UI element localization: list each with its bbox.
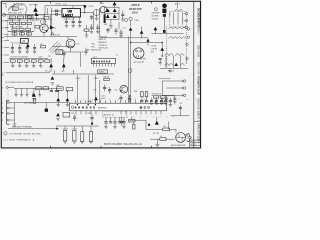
pin circle J1 — [185, 13, 188, 16]
svg-text:C8 C9 C10 C11: C8 C9 C10 C11 — [11, 43, 23, 45]
svg-text:o o o o o o o o o: o o o o o o o o o — [121, 116, 177, 118]
fan motor M1 — [176, 133, 186, 143]
double rail vertical — [128, 37, 130, 105]
diode CR20 dark — [51, 76, 55, 79]
svg-text:P4 SET: P4 SET — [140, 58, 146, 60]
caps row with grounds — [11, 44, 13, 48]
corner mark — [3, 3, 6, 7]
svg-text:REV A 86: REV A 86 — [197, 62, 201, 75]
pin circle J5 — [186, 57, 188, 59]
wires to fan — [146, 128, 163, 130]
wire — [36, 15, 38, 21]
wire stub — [47, 8, 49, 15]
resistor R20 — [10, 60, 15, 62]
hanging caps — [106, 117, 124, 122]
pin circle J3 — [185, 26, 188, 29]
capacitor C20 — [66, 17, 68, 21]
AC plug circle — [3, 13, 6, 16]
pin pad — [55, 10, 57, 12]
svg-text:NO FUSE: NO FUSE — [29, 5, 38, 7]
ground — [56, 104, 60, 106]
svg-text:C30 .1: C30 .1 — [59, 50, 64, 52]
inductor L4B box — [57, 87, 64, 90]
wire bridge out — [118, 22, 120, 29]
svg-text:MACINTOSH: MACINTOSH — [197, 124, 201, 144]
junction dots — [36, 12, 163, 105]
transistor Q11 — [66, 39, 75, 48]
resistor R6 — [21, 22, 25, 24]
svg-text:= EXTERNAL MOUNT ACORN+: = EXTERNAL MOUNT ACORN+ — [9, 133, 43, 136]
resistor row4 R12 — [12, 33, 17, 35]
svg-text:C18 C19: C18 C19 — [53, 35, 60, 37]
diode CR9 dark — [129, 27, 133, 30]
bridge rectifier CR8 — [113, 14, 117, 18]
ground — [121, 19, 125, 21]
svg-text:P/N 4: P/N 4 — [197, 28, 201, 35]
svg-text:C43 .1: C43 .1 — [101, 95, 106, 97]
ground — [85, 35, 89, 37]
svg-text:SHT 1: SHT 1 — [197, 114, 200, 122]
diode CR19 dark — [174, 63, 178, 66]
dashed feeder — [7, 16, 9, 40]
resistor R15 — [44, 17, 49, 20]
resistor R51 vertical — [133, 124, 135, 129]
svg-text:R45 R46 1K: R45 R46 1K — [152, 94, 162, 96]
diode CR1 dark — [50, 25, 54, 29]
svg-text:MAIN BATT TERMINAL: MAIN BATT TERMINAL — [12, 125, 32, 128]
capacitor C27 — [107, 28, 109, 30]
+5 arrow dark — [113, 2, 117, 6]
svg-text:[WHERE?]: [WHERE?] — [98, 107, 107, 109]
svg-text:MAUDE/LT: MAUDE/LT — [99, 41, 107, 44]
inductor bumps row — [165, 54, 174, 56]
extra cap col3 — [160, 106, 162, 108]
resistor box — [43, 87, 49, 90]
cap C17 — [91, 15, 93, 17]
svg-text:TO POWER SUPPLY MODULE: TO POWER SUPPLY MODULE — [5, 82, 34, 84]
ground — [155, 144, 159, 146]
right pins rows — [162, 80, 183, 82]
capacitor C23 — [91, 24, 93, 27]
wire drop to junction — [45, 103, 47, 109]
choke rung 2 — [168, 37, 186, 39]
trickle sub-circuit dashed box — [8, 21, 34, 31]
svg-text:POWER SUP: POWER SUP — [197, 76, 201, 95]
svg-text:APPLE FAN MTR: APPLE FAN MTR — [171, 144, 186, 147]
cap C44 — [109, 87, 111, 90]
svg-text:1 2 3 4 5 6 7 8 9 0 1 2 3 4 5: 1 2 3 4 5 6 7 8 9 0 1 2 3 4 5 6 7 8 — [75, 99, 202, 101]
svg-text:MMMTX04: MMMTX04 — [99, 36, 107, 38]
capacitor C21 — [72, 17, 74, 21]
capacitor C24 — [97, 24, 99, 27]
main wire — [3, 14, 45, 16]
diode CR10 dark — [140, 30, 144, 33]
cable bundle dark — [104, 14, 106, 23]
svg-text:+5.0V: +5.0V — [75, 78, 81, 80]
regulator U8 box — [62, 9, 80, 17]
svg-text:W MCY 2W: W MCY 2W — [30, 19, 40, 21]
svg-text:APPLE: APPLE — [131, 3, 140, 7]
svg-text:M03404A: M03404A — [93, 60, 112, 64]
ground — [13, 124, 17, 126]
choke dark blob — [162, 4, 167, 9]
long wire — [4, 35, 50, 37]
R17 — [41, 46, 46, 48]
grounds cluster — [155, 98, 157, 102]
part box — [63, 113, 70, 117]
resistor R13 — [20, 33, 25, 35]
svg-text:SML1.5 C.5L7: SML1.5 C.5L7 — [8, 20, 20, 22]
resistor box — [66, 88, 73, 91]
svg-text:R20 R21 R22 R23 R24: R20 R21 R22 R23 R24 — [11, 57, 28, 59]
wire — [70, 48, 72, 52]
dark node — [148, 124, 150, 126]
resistor box — [36, 87, 42, 90]
choke ladder rails — [166, 26, 168, 68]
diagonal hatch wires — [49, 41, 62, 54]
svg-text:150: 150 — [163, 126, 166, 128]
resistor R25 — [45, 60, 50, 62]
svg-text:DESKTOP: DESKTOP — [129, 7, 142, 11]
ground — [78, 25, 82, 27]
svg-text:20A8C: 20A8C — [99, 71, 106, 74]
fuse box F1 — [12, 7, 18, 10]
input transistor Q20 — [100, 6, 106, 12]
fan blades — [186, 134, 192, 142]
wire top link — [45, 14, 51, 16]
feed wire to MCU — [15, 102, 70, 104]
vertical drops — [166, 56, 186, 68]
dark dot lower — [163, 30, 166, 33]
svg-text:W2: W2 — [45, 70, 48, 72]
vertical feeds — [77, 75, 99, 105]
pin circle J4 — [186, 43, 188, 45]
wire links — [12, 19, 28, 37]
resistor R53 vertical — [89, 132, 92, 142]
wire — [131, 41, 163, 43]
svg-text:AT 2A: AT 2A — [56, 2, 62, 5]
table extension — [190, 139, 194, 141]
capacitor C40 — [159, 59, 162, 60]
svg-text:SCHEMATIC: SCHEMATIC — [197, 8, 201, 29]
top feed wire — [45, 5, 85, 7]
diode CR11 dark — [154, 27, 158, 30]
resistor R10 — [26, 28, 31, 30]
collector wire — [14, 103, 16, 125]
resistor R4 — [10, 22, 14, 24]
resistor R5 — [15, 22, 19, 24]
resistor R3b — [25, 16, 31, 19]
capacitor C31 — [85, 48, 87, 51]
svg-text:Z - Q: Z - Q — [153, 132, 159, 135]
cap C50 — [121, 117, 123, 122]
svg-text:Z.8: Z.8 — [114, 90, 117, 92]
svg-text:P5 1A: P5 1A — [89, 5, 95, 8]
svg-text:C25: C25 — [123, 27, 126, 29]
cap C46 — [179, 105, 181, 107]
resistor R16 — [35, 25, 40, 28]
wire row3 — [8, 31, 34, 33]
diode CR23 dark — [56, 113, 60, 116]
svg-text:LM317: LM317 — [63, 13, 73, 17]
svg-text:BLK/RED: BLK/RED — [152, 16, 160, 18]
bridge rectifier CR6 — [113, 8, 117, 12]
bracket pins — [182, 80, 185, 97]
svg-text:PROJECT/: PROJECT/ — [99, 45, 108, 47]
diode CR3 dark — [83, 5, 87, 9]
ground under lamp — [96, 16, 98, 19]
diode CR18 dark — [160, 47, 164, 50]
grounds — [63, 141, 67, 143]
svg-text:Z-1 A: Z-1 A — [169, 70, 175, 73]
transformer T1 — [175, 9, 183, 11]
resistor R45 — [154, 96, 159, 98]
border frame — [1, 1, 200, 148]
drop to U8 — [72, 6, 74, 9]
CRT socket circle — [133, 48, 144, 59]
wire row — [151, 95, 174, 97]
title table grid — [194, 139, 201, 141]
cloud brace — [8, 4, 27, 16]
ground — [66, 104, 70, 106]
svg-text:R17: R17 — [40, 44, 43, 46]
diode CR17 dark — [94, 97, 98, 101]
wire under U7 — [52, 73, 114, 75]
svg-text:R38: R38 — [134, 91, 137, 93]
wire — [43, 32, 45, 36]
wire — [43, 15, 45, 25]
wire long mid — [100, 37, 148, 39]
cap C42 — [129, 96, 131, 99]
svg-text:B2: B2 — [67, 38, 69, 40]
ground stems — [16, 88, 40, 96]
wire — [48, 27, 57, 29]
svg-text:MCU: MCU — [140, 106, 151, 110]
note line 1 — [4, 132, 7, 135]
Q9 inner arrow — [45, 30, 47, 32]
resistor R56 — [160, 138, 166, 141]
resistor R2 — [9, 16, 15, 19]
svg-text:+5V 2A: +5V 2A — [151, 45, 157, 48]
svg-text:WORK-CAT: WORK-CAT — [99, 47, 108, 50]
title strip divider line — [194, 120, 201, 122]
ground — [65, 25, 69, 27]
zener outline — [51, 32, 54, 35]
diode CR21 dark — [56, 98, 60, 101]
svg-text:F2: F2 — [44, 21, 46, 23]
resistor R24 — [38, 60, 43, 62]
svg-text:MRC M01 1.2V: MRC M01 1.2V — [8, 12, 22, 14]
rail arrows dark — [146, 39, 149, 42]
dashed option box — [102, 111, 127, 117]
svg-text:P/A -: P/A - — [91, 42, 95, 45]
resistor R11 — [28, 15, 33, 18]
extra caps col2 — [174, 96, 176, 98]
diode CR15 dark — [49, 63, 53, 67]
diode CR28 dark — [32, 93, 36, 97]
svg-text:2W: 2W — [48, 56, 51, 58]
svg-text:C20 C21 C22: C20 C21 C22 — [64, 19, 74, 21]
bridge wires — [104, 6, 119, 8]
lamp circle — [94, 9, 100, 15]
transistor Q9 — [40, 24, 48, 32]
wire under MCU — [129, 119, 146, 121]
svg-text:BXXXX 8/8+5983 / 8/8+C8C+8S +: BXXXX 8/8+5983 / 8/8+C8C+8S +A2 — [104, 143, 143, 146]
cap C45 — [169, 98, 171, 101]
part above feed — [33, 98, 36, 103]
module wire row — [14, 87, 62, 89]
svg-text:650-0391: 650-0391 — [197, 45, 201, 58]
MCU pins below — [76, 111, 161, 115]
resistor R9 — [19, 28, 24, 30]
diode CR2 dark — [35, 13, 39, 16]
resistor R14 — [27, 33, 32, 35]
diode CR22 dark — [66, 98, 70, 101]
inductor bumps row 2 — [165, 64, 174, 66]
svg-text:+12V: +12V — [37, 56, 43, 58]
resistor bank wire — [9, 58, 48, 60]
small parts lower — [84, 29, 89, 31]
svg-text:SET: SET — [151, 52, 154, 54]
wire mid-right bottom — [160, 67, 188, 69]
transistor Q8 — [41, 19, 46, 24]
bridge rectifier CR7 — [106, 14, 110, 18]
svg-text:R40 2K: R40 2K — [103, 76, 110, 78]
svg-text:BR1: BR1 — [104, 24, 107, 26]
small circle node — [125, 19, 128, 22]
U7 left wire — [80, 52, 82, 67]
resistor R55 — [163, 128, 170, 131]
svg-text:hand drive jmp: hand drive jmp — [159, 78, 171, 80]
svg-text:VIO/BLU: VIO/BLU — [152, 19, 159, 21]
link wires under L4A — [52, 45, 74, 47]
svg-text:GRN/WHT: GRN/WHT — [152, 13, 160, 15]
junction dark dot — [45, 109, 48, 112]
svg-text:0.7A 5W: 0.7A 5W — [151, 48, 158, 51]
transformer inner lines — [173, 13, 175, 25]
capacitor C25 — [122, 11, 124, 15]
cap C43 — [104, 85, 106, 88]
border tick marks — [1, 1, 151, 148]
diode CR24 dark — [155, 121, 159, 125]
title strip divider — [193, 2, 195, 148]
svg-text:BUS: BUS — [132, 11, 138, 15]
resistor R42 vertical — [145, 92, 148, 97]
svg-text:MKES' 2L: MKES' 2L — [99, 39, 107, 41]
C55 cap — [74, 114, 76, 117]
bridge rectifier CR5 — [106, 8, 110, 12]
resistor R21 — [17, 60, 22, 62]
wire row2 — [8, 18, 45, 20]
caps under — [140, 101, 143, 102]
resistor R41 vertical — [141, 92, 144, 97]
MCU U1 box — [70, 103, 167, 111]
rung pins — [187, 28, 189, 30]
svg-text:B-2 C8: B-2 C8 — [190, 144, 195, 146]
cap C41 — [120, 95, 122, 98]
capacitor C28 — [115, 28, 117, 30]
svg-text:C38B: C38B — [87, 113, 91, 115]
ground — [51, 83, 55, 85]
wire vertical — [92, 13, 94, 31]
resistor R40 — [104, 78, 109, 80]
svg-text:68HC05: 68HC05 — [75, 106, 97, 110]
svg-text:C39: C39 — [93, 90, 96, 92]
choke rung 1 — [168, 27, 186, 29]
resistor R8 — [12, 28, 17, 30]
ground under CR23 — [56, 118, 60, 120]
parts row under right — [151, 98, 165, 101]
ground — [71, 25, 75, 27]
left col wire — [51, 8, 53, 36]
extra caps col1 — [165, 96, 167, 98]
capacitor C22 — [79, 17, 81, 21]
grounds under bank — [12, 62, 14, 65]
wire right of U8 — [80, 12, 93, 14]
resistor R46 — [160, 96, 165, 98]
wires — [152, 33, 184, 35]
svg-text:Y1: Y1 — [116, 55, 118, 57]
resistor R50 — [129, 119, 135, 122]
ground midright — [169, 68, 171, 70]
C38B cap — [91, 114, 93, 117]
svg-text:1 A 2: 1 A 2 — [100, 2, 104, 5]
resistor R22 — [24, 60, 29, 62]
bus wire — [56, 125, 99, 127]
inductor L4A box — [56, 50, 63, 55]
resistor R3 — [17, 16, 23, 19]
fuse arrow dark — [33, 7, 37, 12]
wire vertical x50 — [49, 15, 51, 28]
wire extend — [50, 35, 77, 37]
svg-text:A5C A5A: A5C A5A — [24, 101, 33, 104]
connector bracket P1 — [7, 100, 10, 124]
cap row — [50, 88, 52, 90]
right lower link — [170, 115, 189, 117]
sub box 20A8C — [98, 70, 108, 73]
transistor Q14 — [120, 85, 128, 93]
svg-text:36: 36 — [160, 136, 162, 138]
svg-text:(*) = MUST TERMINATED +A: (*) = MUST TERMINATED +A — [4, 139, 35, 142]
resistor R23 — [31, 60, 36, 62]
resistor R7 — [27, 22, 31, 24]
diode CR16 dark — [62, 63, 66, 67]
svg-text:C55: C55 — [71, 113, 74, 115]
resistor R52 vertical — [81, 132, 84, 142]
U7 pins below — [94, 64, 115, 67]
svg-text:BW -: BW - — [91, 46, 95, 48]
capacitor C26 — [120, 29, 122, 32]
connector circle — [154, 8, 157, 11]
relay box K1 — [21, 38, 29, 43]
rail circle component — [128, 69, 132, 73]
ground — [109, 26, 113, 28]
svg-text:[8468-31 5]: [8468-31 5] — [103, 115, 114, 117]
ADB connector part — [129, 17, 132, 20]
svg-text:C38 .1: C38 .1 — [94, 78, 100, 80]
MCU pins above — [76, 100, 161, 103]
capacitor C30 — [63, 50, 65, 53]
grounds row — [14, 95, 17, 97]
dashed drop — [7, 90, 9, 100]
pin circle J2 — [185, 19, 188, 22]
